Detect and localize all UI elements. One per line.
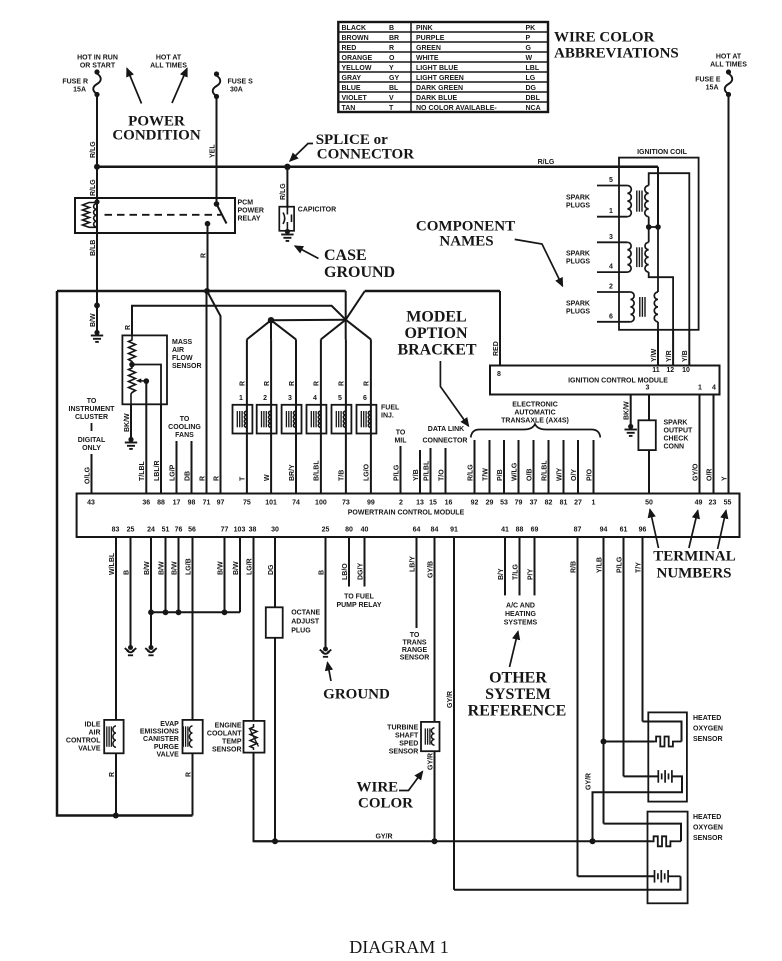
svg-text:R: R — [264, 381, 271, 386]
svg-text:CONDITION: CONDITION — [112, 128, 201, 144]
svg-text:OXYGEN: OXYGEN — [693, 825, 723, 832]
svg-text:INJ.: INJ. — [381, 413, 394, 420]
svg-text:SPARK: SPARK — [566, 300, 590, 307]
svg-text:W/Y: W/Y — [556, 467, 563, 481]
fuel injector 3 — [282, 339, 302, 493]
svg-text:GY: GY — [389, 75, 399, 82]
svg-text:RELAY: RELAY — [238, 216, 261, 223]
svg-text:BLUE: BLUE — [342, 85, 361, 92]
svg-text:PUMP RELAY: PUMP RELAY — [336, 602, 381, 609]
svg-text:MODEL: MODEL — [406, 309, 466, 326]
svg-text:PINK: PINK — [416, 25, 433, 32]
svg-text:SENSOR: SENSOR — [693, 736, 723, 743]
svg-text:GRAY: GRAY — [342, 75, 362, 82]
svg-text:100: 100 — [315, 500, 327, 507]
wire B pin 25 to ground — [123, 537, 136, 655]
arrow to HOT AT ALL TIMES — [172, 69, 187, 104]
svg-text:R/LG: R/LG — [467, 464, 474, 481]
svg-text:PURGE: PURGE — [154, 744, 179, 751]
svg-text:PLUGS: PLUGS — [566, 203, 590, 210]
svg-text:92: 92 — [471, 500, 479, 507]
svg-text:ADJUST: ADJUST — [291, 619, 320, 626]
svg-text:P/B: P/B — [497, 469, 504, 481]
svg-text:GY/R: GY/R — [447, 691, 454, 708]
wire Y/R coil to ICM pin 12 — [666, 330, 673, 366]
wire B/W pin 51 — [158, 537, 165, 612]
wire LG/P to pin 17 — [169, 441, 176, 494]
wire B/W pin 103 — [233, 537, 240, 612]
fuel injector 2 — [257, 339, 277, 493]
downstream O2 heater right link — [673, 840, 681, 842]
label FUSE R 15A — [62, 79, 88, 94]
label EVAP EMISSIONS CANISTER PURGE VALVE — [140, 721, 179, 758]
svg-text:O/R: O/R — [706, 469, 713, 481]
wire W/LG (AX4S) — [511, 440, 518, 494]
svg-text:R/LBL: R/LBL — [541, 460, 548, 481]
svg-text:77: 77 — [221, 527, 229, 534]
svg-text:HEATING: HEATING — [505, 611, 537, 618]
fuse R — [93, 69, 101, 97]
svg-text:5: 5 — [338, 395, 342, 402]
svg-text:PLUGS: PLUGS — [566, 259, 590, 266]
svg-text:15A: 15A — [73, 87, 86, 94]
svg-text:GY/O: GY/O — [692, 463, 699, 481]
header WIRE COLOR — [357, 780, 414, 812]
ignition coil transformer 2 (plugs 3/4) — [597, 234, 649, 272]
wire ICM pin 3 to PCM pin 50 — [648, 395, 650, 494]
svg-text:PK: PK — [526, 25, 536, 32]
svg-text:GY/R: GY/R — [427, 753, 434, 770]
svg-text:BK/W: BK/W — [624, 401, 631, 420]
label HEATED OXYGEN SENSOR (downstream) — [693, 814, 723, 842]
svg-text:LIGHT BLUE: LIGHT BLUE — [416, 65, 458, 72]
svg-text:CANISTER: CANISTER — [143, 736, 179, 743]
svg-text:55: 55 — [724, 500, 732, 507]
svg-text:GY/R: GY/R — [585, 773, 592, 790]
svg-text:LBL/R: LBL/R — [154, 460, 161, 481]
svg-text:EVAP: EVAP — [160, 721, 179, 728]
svg-text:36: 36 — [142, 500, 150, 507]
svg-text:B/LB: B/LB — [90, 240, 97, 256]
label FUSE E 15A — [695, 77, 721, 92]
ignition control module — [490, 366, 720, 395]
svg-text:BL: BL — [389, 85, 399, 92]
arrow bracket leader — [440, 361, 468, 426]
junction IACV / feed bus — [113, 813, 119, 819]
header POWER CONDITION — [112, 114, 201, 144]
ignition coil box — [619, 149, 699, 330]
label HOT AT ALL TIMES (fuse S) — [150, 55, 187, 70]
svg-text:1: 1 — [698, 385, 702, 392]
svg-text:FUEL: FUEL — [381, 405, 400, 412]
splice dot on R/LG bus — [284, 164, 290, 170]
MAF junction dot — [129, 362, 135, 368]
svg-text:R: R — [389, 45, 394, 52]
svg-text:SENSOR: SENSOR — [693, 835, 723, 842]
relay PCM POWER RELAY — [75, 198, 235, 233]
wire GY/B pin 84 to turbine sensor — [427, 537, 434, 722]
heated oxygen sensor (upstream) — [648, 712, 687, 801]
svg-text:R: R — [199, 476, 206, 481]
svg-text:POWERTRAIN CONTROL MODULE: POWERTRAIN CONTROL MODULE — [348, 510, 465, 517]
label MASS AIR FLOW SENSOR — [172, 339, 202, 370]
svg-text:51: 51 — [162, 527, 170, 534]
svg-text:WIRE: WIRE — [357, 780, 399, 796]
svg-text:64: 64 — [413, 527, 421, 534]
svg-text:B/W: B/W — [158, 561, 165, 575]
svg-text:84: 84 — [431, 527, 439, 534]
svg-text:CHECK: CHECK — [664, 436, 689, 443]
svg-text:43: 43 — [87, 500, 95, 507]
svg-text:HEATED: HEATED — [693, 715, 721, 722]
svg-text:SPARK: SPARK — [664, 420, 688, 427]
svg-text:P/Y: P/Y — [527, 568, 534, 580]
svg-text:TO: TO — [180, 416, 190, 423]
svg-text:LG: LG — [526, 75, 536, 82]
svg-text:SENSOR: SENSOR — [172, 363, 202, 370]
wire R IACV to feed bus — [109, 753, 116, 815]
svg-text:R: R — [364, 381, 371, 386]
wire P/B (AX4S) — [497, 440, 504, 494]
label FUEL INJ. — [381, 405, 400, 420]
svg-text:ORANGE: ORANGE — [342, 55, 373, 62]
header CASE GROUND — [324, 247, 395, 281]
wire ECT to sensor return bus — [254, 753, 276, 842]
svg-text:Y/W: Y/W — [651, 348, 658, 362]
svg-text:2: 2 — [609, 284, 613, 291]
svg-text:P/LG: P/LG — [393, 464, 400, 481]
wire P/LG pin 61 to upstream O2 cell — [616, 537, 658, 776]
R feed left border to valves — [57, 291, 193, 816]
svg-text:37: 37 — [530, 500, 538, 507]
svg-text:13: 13 — [416, 500, 424, 507]
wire B pin 25 (second) to ground — [318, 537, 331, 657]
svg-text:B/W: B/W — [233, 561, 240, 575]
wire relay switch R down to bus — [200, 224, 207, 291]
svg-text:61: 61 — [620, 527, 628, 534]
svg-text:5: 5 — [609, 177, 613, 184]
svg-text:O/B: O/B — [526, 469, 533, 481]
label DATA LINK CONNECTOR — [423, 426, 468, 445]
svg-text:80: 80 — [345, 527, 353, 534]
label TO FUEL PUMP RELAY — [336, 594, 381, 610]
spark output check connector — [638, 420, 655, 450]
wire MAF BK/W to ground — [124, 404, 137, 449]
svg-text:PURPLE: PURPLE — [416, 35, 445, 42]
svg-text:ALL TIMES: ALL TIMES — [710, 62, 747, 69]
svg-text:OUTPUT: OUTPUT — [664, 428, 694, 435]
heated oxygen sensor (downstream) — [648, 812, 688, 904]
junction dots B/W bus — [148, 609, 227, 615]
junction DG / sensor return bus — [272, 838, 278, 844]
wire B/W pin 77 — [217, 537, 224, 612]
svg-text:ALL TIMES: ALL TIMES — [150, 63, 187, 70]
svg-text:MIL: MIL — [394, 438, 407, 445]
svg-text:IGNITION CONTROL MODULE: IGNITION CONTROL MODULE — [568, 377, 668, 384]
svg-text:TEMP: TEMP — [222, 739, 242, 746]
header TERMINAL NUMBERS — [653, 549, 736, 582]
octane adjust plug — [266, 607, 283, 638]
wire GY/R pin 91 to downstream O2 sensor — [447, 537, 681, 890]
svg-text:SYSTEMS: SYSTEMS — [504, 620, 538, 627]
wire R/LG to capacitor — [280, 167, 287, 208]
svg-text:W: W — [526, 55, 533, 62]
wire T/Y pin 96 to upstream O2 heater — [635, 537, 681, 742]
wire T/LG pin 88 — [512, 537, 519, 595]
svg-text:CASE: CASE — [324, 247, 367, 264]
arrow to case ground — [295, 246, 319, 259]
ignition coil transformer 3 (plugs 2/6) — [597, 284, 658, 322]
sensor return bus GY/R — [254, 834, 652, 842]
wire R to PCM pin 71 — [199, 291, 206, 494]
fuel injector 1 — [233, 339, 253, 493]
svg-text:LG/P: LG/P — [169, 464, 176, 481]
svg-text:BK/W: BK/W — [124, 413, 131, 432]
svg-text:BLACK: BLACK — [342, 25, 367, 32]
svg-text:GREEN: GREEN — [416, 45, 441, 52]
svg-text:LBL: LBL — [526, 65, 540, 72]
svg-text:CONN: CONN — [664, 444, 685, 451]
svg-text:W/LG: W/LG — [511, 462, 518, 481]
svg-text:P/LG: P/LG — [616, 556, 623, 573]
svg-text:B/LBL: B/LBL — [314, 460, 321, 481]
svg-text:NAMES: NAMES — [439, 234, 493, 250]
wire GY/O ICM pin 1 to PCM pin 49 — [692, 395, 699, 494]
wire fuse R to relay R/LG — [90, 95, 97, 199]
engine coolant temp sensor — [244, 721, 265, 753]
label TO INSTRUMENT CLUSTER DIGITAL ONLY — [69, 398, 116, 452]
svg-text:23: 23 — [709, 500, 717, 507]
svg-text:TRANS: TRANS — [402, 640, 426, 647]
svg-text:POWER: POWER — [238, 208, 264, 215]
svg-text:88: 88 — [516, 527, 524, 534]
svg-text:BROWN: BROWN — [342, 35, 369, 42]
wire R to MAF sensor — [125, 306, 346, 336]
wire R EVAP to feed bus — [185, 753, 192, 815]
svg-text:OPTION: OPTION — [404, 325, 468, 342]
svg-text:INSTRUMENT: INSTRUMENT — [69, 406, 116, 413]
B/W ground link bus — [151, 611, 240, 613]
svg-text:O/LG: O/LG — [84, 466, 91, 484]
svg-text:SHAFT: SHAFT — [395, 733, 419, 740]
svg-text:IDLE: IDLE — [85, 722, 101, 729]
svg-text:91: 91 — [450, 527, 458, 534]
arrow to terminal 50 — [650, 510, 659, 549]
svg-text:FUSE R: FUSE R — [62, 79, 88, 86]
svg-text:TURBINE: TURBINE — [387, 725, 418, 732]
wire Y/W coil to ICM pin 11 — [651, 330, 658, 366]
svg-text:DARK BLUE: DARK BLUE — [416, 95, 458, 102]
svg-text:P: P — [526, 35, 531, 42]
svg-text:SPED: SPED — [399, 741, 418, 748]
svg-text:1: 1 — [239, 395, 243, 402]
svg-text:OTHER: OTHER — [489, 670, 547, 687]
upstream O2 cell output GY/R route — [585, 773, 682, 841]
PCM bottom pin numbers — [112, 527, 647, 534]
wire DG/Y pin 40 — [357, 537, 364, 587]
svg-text:YELLOW: YELLOW — [342, 65, 372, 72]
title WIRE COLOR ABBREVIATIONS — [554, 30, 679, 62]
wire BK/W ICM to ground — [624, 395, 637, 436]
svg-text:49: 49 — [695, 500, 703, 507]
svg-text:ELECTRONIC: ELECTRONIC — [512, 402, 558, 409]
MAF lower resistor (potentiometer) — [129, 365, 150, 405]
svg-text:WIRE COLOR: WIRE COLOR — [554, 30, 655, 46]
svg-text:FUSE S: FUSE S — [228, 79, 254, 86]
mass air flow sensor — [122, 335, 167, 404]
label HOT AT ALL TIMES (fuse E) — [710, 54, 747, 69]
label ELECTRONIC AUTOMATIC TRANSAXLE (AX4S) — [501, 402, 569, 425]
label HOT IN RUN OR START — [77, 55, 118, 70]
svg-text:TERMINAL: TERMINAL — [653, 549, 736, 565]
svg-text:W: W — [264, 474, 271, 481]
wire LB/O pin 80 — [342, 537, 349, 587]
svg-text:TAN: TAN — [342, 105, 356, 112]
wire R/B pin 87 to downstream O2 — [570, 537, 654, 876]
svg-text:ENGINE: ENGINE — [215, 723, 242, 730]
svg-text:AUTOMATIC: AUTOMATIC — [514, 410, 555, 417]
svg-text:6: 6 — [363, 395, 367, 402]
fuel injector 5 — [332, 339, 352, 493]
svg-text:Y/B: Y/B — [413, 469, 420, 481]
svg-text:CLUSTER: CLUSTER — [75, 414, 108, 421]
svg-text:101: 101 — [265, 500, 277, 507]
upstream O2 heater right link — [676, 741, 682, 743]
svg-text:25: 25 — [322, 527, 330, 534]
svg-text:TO FUEL: TO FUEL — [344, 594, 375, 601]
svg-text:1: 1 — [592, 500, 596, 507]
svg-text:CONTROL: CONTROL — [66, 738, 101, 745]
header SPLICE or CONNECTOR — [316, 132, 415, 163]
svg-text:V: V — [389, 95, 394, 102]
wire LG/B pin 56 to EVAP valve — [185, 537, 192, 720]
svg-text:R: R — [339, 381, 346, 386]
label SPARK PLUGS 1 — [566, 195, 590, 210]
label TO TRANS RANGE SENSOR — [400, 632, 430, 662]
wire GY/R turbine to sensor return bus — [427, 751, 434, 841]
wire R bus to ICM pin 8 RED — [365, 291, 500, 366]
svg-text:T/B: T/B — [339, 470, 346, 481]
svg-text:DG: DG — [268, 564, 275, 575]
svg-text:GY/R: GY/R — [375, 834, 392, 841]
label A/C AND HEATING SYSTEMS — [504, 603, 538, 627]
svg-text:B/W: B/W — [217, 561, 224, 575]
arrow to HOT IN RUN OR START — [127, 69, 142, 104]
svg-text:T/Y: T/Y — [635, 562, 642, 573]
junction Y/LB heater node — [601, 739, 607, 745]
label SPARK OUTPUT CHECK CONN — [664, 420, 694, 451]
svg-text:R: R — [200, 253, 207, 258]
wire relay coil to ground B/LB B/W — [90, 233, 97, 332]
label TO MIL + wire P/LG to pin 2 — [393, 430, 407, 494]
fuse S — [213, 71, 221, 99]
injector feed node (injectors 1-3) — [247, 317, 296, 339]
svg-text:88: 88 — [157, 500, 165, 507]
svg-text:SENSOR: SENSOR — [389, 749, 419, 756]
PCM top pin numbers — [87, 500, 731, 507]
svg-text:R/LG: R/LG — [90, 179, 97, 196]
wire DG pin 30 — [268, 537, 275, 841]
wire B/W pin 76 — [171, 537, 178, 612]
wire O/R ICM pin 4 to PCM pin 23 — [706, 395, 713, 494]
svg-text:COLOR: COLOR — [358, 796, 413, 812]
svg-text:96: 96 — [639, 527, 647, 534]
svg-text:COMPONENT: COMPONENT — [416, 219, 515, 235]
wire W/LBL pin 83 to idle air control valve — [109, 537, 116, 720]
svg-text:WHITE: WHITE — [416, 55, 439, 62]
wire MAF LBL/R to pin 88 — [154, 404, 161, 493]
svg-text:COOLANT: COOLANT — [207, 731, 242, 738]
svg-text:HOT AT: HOT AT — [716, 54, 742, 61]
svg-text:NO COLOR AVAILABLE-: NO COLOR AVAILABLE- — [416, 105, 497, 112]
svg-text:YEL: YEL — [209, 144, 216, 158]
svg-text:74: 74 — [292, 500, 300, 507]
svg-text:SPARK: SPARK — [566, 195, 590, 202]
svg-text:EMISSIONS: EMISSIONS — [140, 729, 179, 736]
wire P/O (AX4S) — [586, 440, 593, 494]
wire DB to pin 98 — [184, 441, 191, 494]
R bus y=291 (left segment) — [57, 290, 346, 293]
header COMPONENT NAMES — [416, 219, 515, 250]
svg-text:30: 30 — [271, 527, 279, 534]
svg-text:76: 76 — [175, 527, 183, 534]
svg-text:SENSOR: SENSOR — [400, 655, 430, 662]
svg-text:OXYGEN: OXYGEN — [693, 726, 723, 733]
svg-text:99: 99 — [367, 500, 375, 507]
capacitor CAPICITOR — [279, 207, 336, 231]
downstream O2 cell right link — [668, 875, 680, 877]
svg-text:HEATED: HEATED — [693, 814, 721, 821]
junction turbine / sensor return bus — [432, 838, 438, 844]
svg-text:NCA: NCA — [526, 105, 541, 112]
svg-text:24: 24 — [147, 527, 155, 534]
svg-text:11: 11 — [652, 367, 660, 374]
svg-text:Y/LB: Y/LB — [596, 557, 603, 573]
svg-text:98: 98 — [188, 500, 196, 507]
svg-text:B/W: B/W — [144, 561, 151, 575]
svg-text:HOT AT: HOT AT — [156, 55, 182, 62]
svg-text:T/O: T/O — [438, 469, 445, 481]
svg-text:AIR: AIR — [88, 730, 100, 737]
svg-text:17: 17 — [173, 500, 181, 507]
label SPARK PLUGS 2 — [566, 251, 590, 266]
wire B/W pin 24 to ground — [144, 537, 157, 655]
svg-text:OCTANE: OCTANE — [291, 610, 320, 617]
svg-text:DG/Y: DG/Y — [357, 563, 364, 580]
svg-text:SPARK: SPARK — [566, 251, 590, 258]
svg-text:FLOW: FLOW — [172, 355, 193, 362]
svg-text:GROUND: GROUND — [324, 264, 395, 281]
svg-text:FANS: FANS — [175, 432, 194, 439]
svg-text:4: 4 — [609, 264, 613, 271]
svg-text:15: 15 — [429, 500, 437, 507]
svg-text:30A: 30A — [230, 87, 243, 94]
wire P/Y pin 69 — [527, 537, 534, 595]
svg-text:T/W: T/W — [482, 468, 489, 481]
svg-text:CONNECTOR: CONNECTOR — [317, 147, 414, 163]
wire fuse S to relay YEL — [209, 97, 216, 205]
svg-text:DATA LINK: DATA LINK — [428, 426, 464, 433]
svg-text:TO: TO — [396, 430, 406, 437]
svg-text:73: 73 — [342, 500, 350, 507]
svg-text:R/LG: R/LG — [90, 141, 97, 158]
svg-text:P/LBL: P/LBL — [423, 460, 430, 481]
svg-text:G: G — [526, 45, 532, 52]
splice dot on B/W wire — [94, 303, 100, 309]
svg-text:79: 79 — [515, 500, 523, 507]
wire O/LG to pin 43 — [84, 454, 91, 494]
svg-text:83: 83 — [112, 527, 120, 534]
